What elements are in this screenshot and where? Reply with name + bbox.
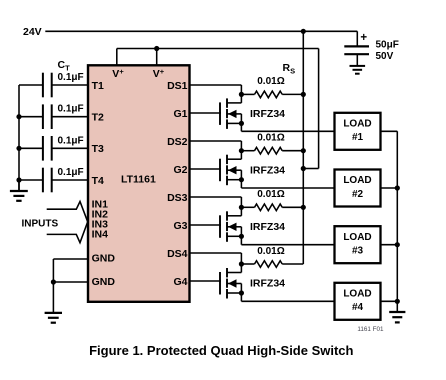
svg-text:IN4: IN4 xyxy=(92,229,109,241)
svg-text:LOAD: LOAD xyxy=(343,175,371,186)
transistor Q2 IRFZ34 xyxy=(190,151,242,186)
wire LOAD #2 to ground return xyxy=(381,187,398,189)
ground (GND pins) xyxy=(45,282,62,323)
junction R3 to 24V vertical xyxy=(301,205,306,210)
transistor Q4 IRFZ34 xyxy=(190,264,242,299)
wire ground return vertical xyxy=(396,131,398,301)
value label IRFZ34 Q2 xyxy=(250,164,285,176)
pin G3 label xyxy=(173,220,187,232)
junction GND wires xyxy=(51,279,56,284)
pin G1 label xyxy=(173,108,187,120)
pin IN2 label xyxy=(92,209,109,221)
junction source node channel 4 xyxy=(239,290,244,295)
pin DS1 label xyxy=(167,80,188,92)
transistor Q3 IRFZ34 xyxy=(190,207,242,242)
wire INPUTS bus arrow xyxy=(47,202,88,243)
ground (50uF cap) xyxy=(350,66,366,74)
svg-text:G2: G2 xyxy=(173,164,187,176)
wire 24V rail xyxy=(45,30,357,32)
svg-text:#1: #1 xyxy=(352,132,364,143)
svg-text:DS3: DS3 xyxy=(167,192,188,204)
pin DS2 label xyxy=(167,136,188,148)
wire DS4 pin to drain node xyxy=(190,253,242,264)
wire source to LOAD #4 xyxy=(241,293,334,301)
svg-text:DS4: DS4 xyxy=(167,248,188,260)
junction on 24V rail xyxy=(301,29,306,34)
wire 24V vertical feed to sense resistors xyxy=(302,31,304,264)
value label 50uF xyxy=(376,40,399,51)
value label 0.1uF C3 xyxy=(58,135,84,146)
capacitor C3 0.1uF (T3 timing) xyxy=(19,136,88,161)
junction drain node channel 1 xyxy=(239,92,244,97)
resistor R2 0.01 ohm sense xyxy=(241,147,303,154)
svg-text:T4: T4 xyxy=(92,175,104,187)
capacitor C1 0.1uF (T1 timing) xyxy=(19,73,88,98)
pin GND label 1 xyxy=(92,252,116,264)
value label 0.01 ohm R4 xyxy=(257,246,284,257)
svg-text:G3: G3 xyxy=(173,220,187,232)
wire GND pin 2 xyxy=(53,281,88,283)
svg-text:50V: 50V xyxy=(376,51,394,62)
pin T1 label xyxy=(92,80,104,92)
note 1161 F01 xyxy=(357,326,384,333)
value label 0.1uF C1 xyxy=(58,72,84,83)
pin T4 label xyxy=(92,175,104,187)
junction R1 to 24V vertical xyxy=(301,92,306,97)
svg-text:INPUTS: INPUTS xyxy=(22,218,59,229)
svg-text:#3: #3 xyxy=(352,246,364,257)
svg-text:24V: 24V xyxy=(23,26,42,38)
svg-text:50μF: 50μF xyxy=(376,40,399,51)
svg-text:IRFZ34: IRFZ34 xyxy=(250,278,285,290)
svg-text:IRFZ34: IRFZ34 xyxy=(250,108,285,120)
svg-text:T3: T3 xyxy=(92,143,104,155)
value label 0.1uF C4 xyxy=(58,167,84,178)
svg-text:0.01Ω: 0.01Ω xyxy=(257,76,284,87)
resistor R4 0.01 ohm sense xyxy=(241,261,303,268)
svg-text:LOAD: LOAD xyxy=(343,118,371,129)
junction V+ stub xyxy=(154,46,159,51)
svg-text:0.1μF: 0.1μF xyxy=(58,167,84,178)
junction drain node channel 3 xyxy=(239,205,244,210)
node CT label xyxy=(58,59,71,73)
wire source to LOAD #1 xyxy=(241,123,334,131)
load box LOAD #4 xyxy=(335,283,381,320)
pin G2 label xyxy=(173,164,187,176)
junction R2 to 24V vertical xyxy=(301,148,306,153)
pin IN4 label xyxy=(92,229,109,241)
wire LOAD #1 to ground return xyxy=(381,130,398,132)
junction V+ join 24V vertical xyxy=(301,166,306,171)
pin IN3 label xyxy=(92,219,109,231)
junction source node channel 3 xyxy=(239,234,244,239)
svg-text:G4: G4 xyxy=(173,276,187,288)
svg-text:LOAD: LOAD xyxy=(343,232,371,243)
load box LOAD #1 xyxy=(335,113,381,150)
svg-text:0.1μF: 0.1μF xyxy=(58,104,84,115)
svg-text:G1: G1 xyxy=(173,108,187,120)
svg-text:IRFZ34: IRFZ34 xyxy=(250,221,285,233)
pin GND label 2 xyxy=(92,276,116,288)
wire left ground rail xyxy=(18,85,20,191)
svg-text:0.1μF: 0.1μF xyxy=(58,72,84,83)
ground (load return) xyxy=(389,301,405,322)
junction load return 2 xyxy=(395,185,400,190)
svg-text:T2: T2 xyxy=(92,112,104,124)
svg-text:DS1: DS1 xyxy=(167,80,188,92)
junction source node channel 1 xyxy=(239,121,244,126)
value label 0.01 ohm R2 xyxy=(257,133,284,144)
pin G4 label xyxy=(173,276,187,288)
wire source to LOAD #3 xyxy=(241,236,334,244)
wire LOAD #3 to ground return xyxy=(381,244,398,246)
value label 0.01 ohm R1 xyxy=(257,76,284,87)
wire DS3 pin to drain node xyxy=(190,197,242,207)
junction on left rail xyxy=(16,114,21,119)
transistor Q1 IRFZ34 xyxy=(190,94,242,128)
pin T2 label xyxy=(92,112,104,124)
junction on left rail xyxy=(16,146,21,151)
wire DS2 pin to drain node xyxy=(190,141,242,151)
node RS label xyxy=(283,62,296,76)
junction source node channel 2 xyxy=(239,177,244,182)
wire DS1 pin to drain node xyxy=(190,85,242,94)
capacitor C4 0.1uF (T4 timing) xyxy=(19,168,88,193)
svg-text:0.01Ω: 0.01Ω xyxy=(257,246,284,257)
svg-text:0.01Ω: 0.01Ω xyxy=(257,189,284,200)
wire LOAD #4 to ground return xyxy=(381,300,398,302)
svg-text:IRFZ34: IRFZ34 xyxy=(250,164,285,176)
svg-text:#2: #2 xyxy=(352,189,364,200)
wire source to LOAD #2 xyxy=(241,180,334,188)
caption Figure 1 xyxy=(89,343,353,358)
load box LOAD #2 xyxy=(335,170,381,207)
junction drain node channel 2 xyxy=(239,148,244,153)
value label 0.01 ohm R3 xyxy=(257,189,284,200)
ground (timing caps) xyxy=(10,180,28,201)
svg-text:1161 F01: 1161 F01 xyxy=(357,326,384,333)
capacitor C2 0.1uF (T2 timing) xyxy=(19,104,88,129)
resistor R1 0.01 ohm sense xyxy=(241,91,303,98)
svg-text:GND: GND xyxy=(92,276,116,288)
node 24V label xyxy=(23,26,42,38)
svg-text:0.1μF: 0.1μF xyxy=(58,135,84,146)
svg-text:#4: #4 xyxy=(352,302,364,313)
svg-text:LOAD: LOAD xyxy=(343,288,371,299)
capacitor 50uF 50V xyxy=(344,31,369,66)
junction load return 4 xyxy=(395,299,400,304)
svg-text:LT1161: LT1161 xyxy=(121,174,156,186)
node INPUTS label xyxy=(22,218,59,229)
pin DS4 label xyxy=(167,248,188,260)
op-amp U1 LT1161 quad high-side driver xyxy=(88,65,190,301)
load box LOAD #3 xyxy=(335,226,381,263)
wire GND pin 1 xyxy=(53,259,88,282)
svg-text:0.01Ω: 0.01Ω xyxy=(257,133,284,144)
pin V+ labels xyxy=(112,67,164,80)
svg-text:DS2: DS2 xyxy=(167,136,188,148)
resistor R3 0.01 ohm sense xyxy=(241,204,303,211)
value label 0.1uF C2 xyxy=(58,104,84,115)
value label IRFZ34 Q3 xyxy=(250,221,285,233)
value label 50V xyxy=(376,51,394,62)
value label IRFZ34 Q4 xyxy=(250,278,285,290)
svg-text:GND: GND xyxy=(92,252,116,264)
junction load return 3 xyxy=(395,242,400,247)
svg-text:T1: T1 xyxy=(92,80,104,92)
pin T3 label xyxy=(92,143,104,155)
value label IRFZ34 Q1 xyxy=(250,108,285,120)
svg-text:Figure 1. Protected Quad High-: Figure 1. Protected Quad High-Side Switc… xyxy=(89,343,353,358)
junction on left rail xyxy=(16,177,21,182)
pin DS3 label xyxy=(167,192,188,204)
wire V+ pins to supply xyxy=(117,49,319,169)
junction drain node channel 4 xyxy=(239,261,244,266)
svg-text:+: + xyxy=(360,32,367,44)
pin IN1 label xyxy=(92,199,109,211)
